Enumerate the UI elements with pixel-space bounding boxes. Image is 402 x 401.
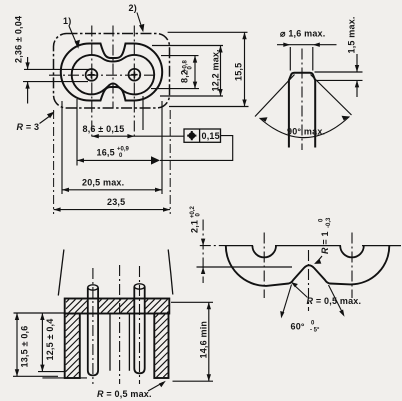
dimension ⌀ 1,6 max xyxy=(277,29,337,71)
svg-text:1): 1) xyxy=(63,16,71,26)
svg-text:R = 0,5 max.: R = 0,5 max. xyxy=(307,296,362,306)
profile centerlines vertical xyxy=(264,233,352,312)
svg-text:-0,3: -0,3 xyxy=(326,217,332,228)
profile centerline horizontal xyxy=(200,245,226,247)
profile top edge xyxy=(226,245,401,247)
left notch semicircle xyxy=(252,246,276,258)
right pin hole xyxy=(129,69,141,81)
left wall hatching xyxy=(66,314,79,377)
profile outline xyxy=(226,246,389,286)
label 2) xyxy=(129,3,145,32)
90° cone right line xyxy=(311,75,352,116)
right pin (section) xyxy=(134,287,144,374)
svg-text:R = 0,5 max.: R = 0,5 max. xyxy=(97,389,152,399)
vertical centerline left pin xyxy=(91,26,93,137)
extension line right pin area xyxy=(142,96,144,130)
svg-text:0: 0 xyxy=(311,321,315,327)
dimension 16,5 +0,9/0 with datum triangle xyxy=(77,99,160,166)
svg-text:R = 1: R = 1 xyxy=(320,231,330,254)
label R = 3 xyxy=(17,112,55,133)
pin centerline xyxy=(301,49,303,151)
vertical centerline middle xyxy=(112,26,114,109)
recess waist edges (section) xyxy=(110,314,129,371)
leader from frame xyxy=(160,136,233,161)
horizontal centerline xyxy=(49,74,158,76)
svg-text:15,5: 15,5 xyxy=(234,63,244,81)
inner figure-8 opening contour xyxy=(72,55,154,94)
dimension 1,5 max xyxy=(315,16,363,97)
dimension 2,1 +0,2/0 xyxy=(190,205,293,283)
right flare line xyxy=(168,250,173,295)
svg-text:0: 0 xyxy=(119,153,123,159)
dimension 14,6 min xyxy=(171,302,213,381)
svg-text:12,2 max.: 12,2 max. xyxy=(211,49,221,91)
right wall outline xyxy=(154,314,168,379)
svg-text:1,5 max.: 1,5 max. xyxy=(347,16,357,53)
pin outline xyxy=(289,73,315,148)
svg-text:2,36 ± 0,04: 2,36 ± 0,04 xyxy=(14,16,24,63)
svg-text:0,15: 0,15 xyxy=(202,131,220,141)
left flare line xyxy=(58,250,64,296)
svg-text:+0,9: +0,9 xyxy=(117,147,130,153)
svg-text:20,5 max.: 20,5 max. xyxy=(82,178,124,188)
dimension 60° +0/-5° xyxy=(280,285,344,334)
left pin hole xyxy=(86,69,98,81)
left pin (section) xyxy=(88,288,98,376)
90° cone left line xyxy=(255,75,295,117)
right wall hatching xyxy=(155,314,167,377)
left wall outline xyxy=(65,314,80,379)
svg-text:0: 0 xyxy=(319,218,325,222)
dimension 15,5 xyxy=(168,32,249,106)
svg-text:90° max.: 90° max. xyxy=(287,127,325,137)
svg-text:⌀ 1,6 max.: ⌀ 1,6 max. xyxy=(280,29,325,39)
label R = 1 +0/-0,3 xyxy=(314,217,332,264)
svg-text:2): 2) xyxy=(129,3,137,13)
dash-dot appliance outline (item 2) xyxy=(54,34,170,109)
dimension 8,2 +0,8/0 xyxy=(151,56,199,89)
svg-text:23,5: 23,5 xyxy=(107,197,125,207)
svg-text:60°: 60° xyxy=(291,322,305,332)
svg-text:8,6 ± 0,15: 8,6 ± 0,15 xyxy=(83,124,125,134)
position tolerance frame xyxy=(160,129,233,160)
svg-text:16,5: 16,5 xyxy=(97,148,115,158)
outer figure-8 contour (item 1) xyxy=(61,44,162,101)
label 1) xyxy=(63,16,80,49)
svg-text:2,1: 2,1 xyxy=(190,220,200,233)
dimension 12,2 max xyxy=(152,46,223,97)
svg-text:12,5 ± 0,4: 12,5 ± 0,4 xyxy=(45,319,55,361)
right notch semicircle xyxy=(340,246,364,258)
flange outline xyxy=(65,299,170,314)
label R = 0,5 max (profile) xyxy=(291,282,361,306)
90° angle arc xyxy=(260,117,350,138)
dimension 13,5 ± 0,6 xyxy=(13,313,65,376)
svg-text:0: 0 xyxy=(196,213,202,217)
dimension 23,5 xyxy=(54,110,171,214)
label R = 0,5 max (section) xyxy=(97,381,166,399)
right pin hole center mark xyxy=(131,72,137,78)
section centerlines xyxy=(93,265,140,384)
vertical centerline right pin xyxy=(133,26,135,137)
svg-text:R = 3: R = 3 xyxy=(17,122,40,132)
svg-text:14,6 min: 14,6 min xyxy=(199,321,209,359)
dimension 12,5 ± 0,4 xyxy=(38,313,87,378)
left pin hole center mark xyxy=(88,72,94,78)
dimension 2,36 ± 0,04 xyxy=(14,16,91,104)
flange hatching xyxy=(66,299,168,312)
svg-text:- 5°: - 5° xyxy=(310,328,320,334)
svg-text:13,5 ± 0,6: 13,5 ± 0,6 xyxy=(20,326,30,368)
dimension 20,5 max xyxy=(62,101,162,194)
dimension 8,6 ± 0,15 xyxy=(83,124,185,138)
